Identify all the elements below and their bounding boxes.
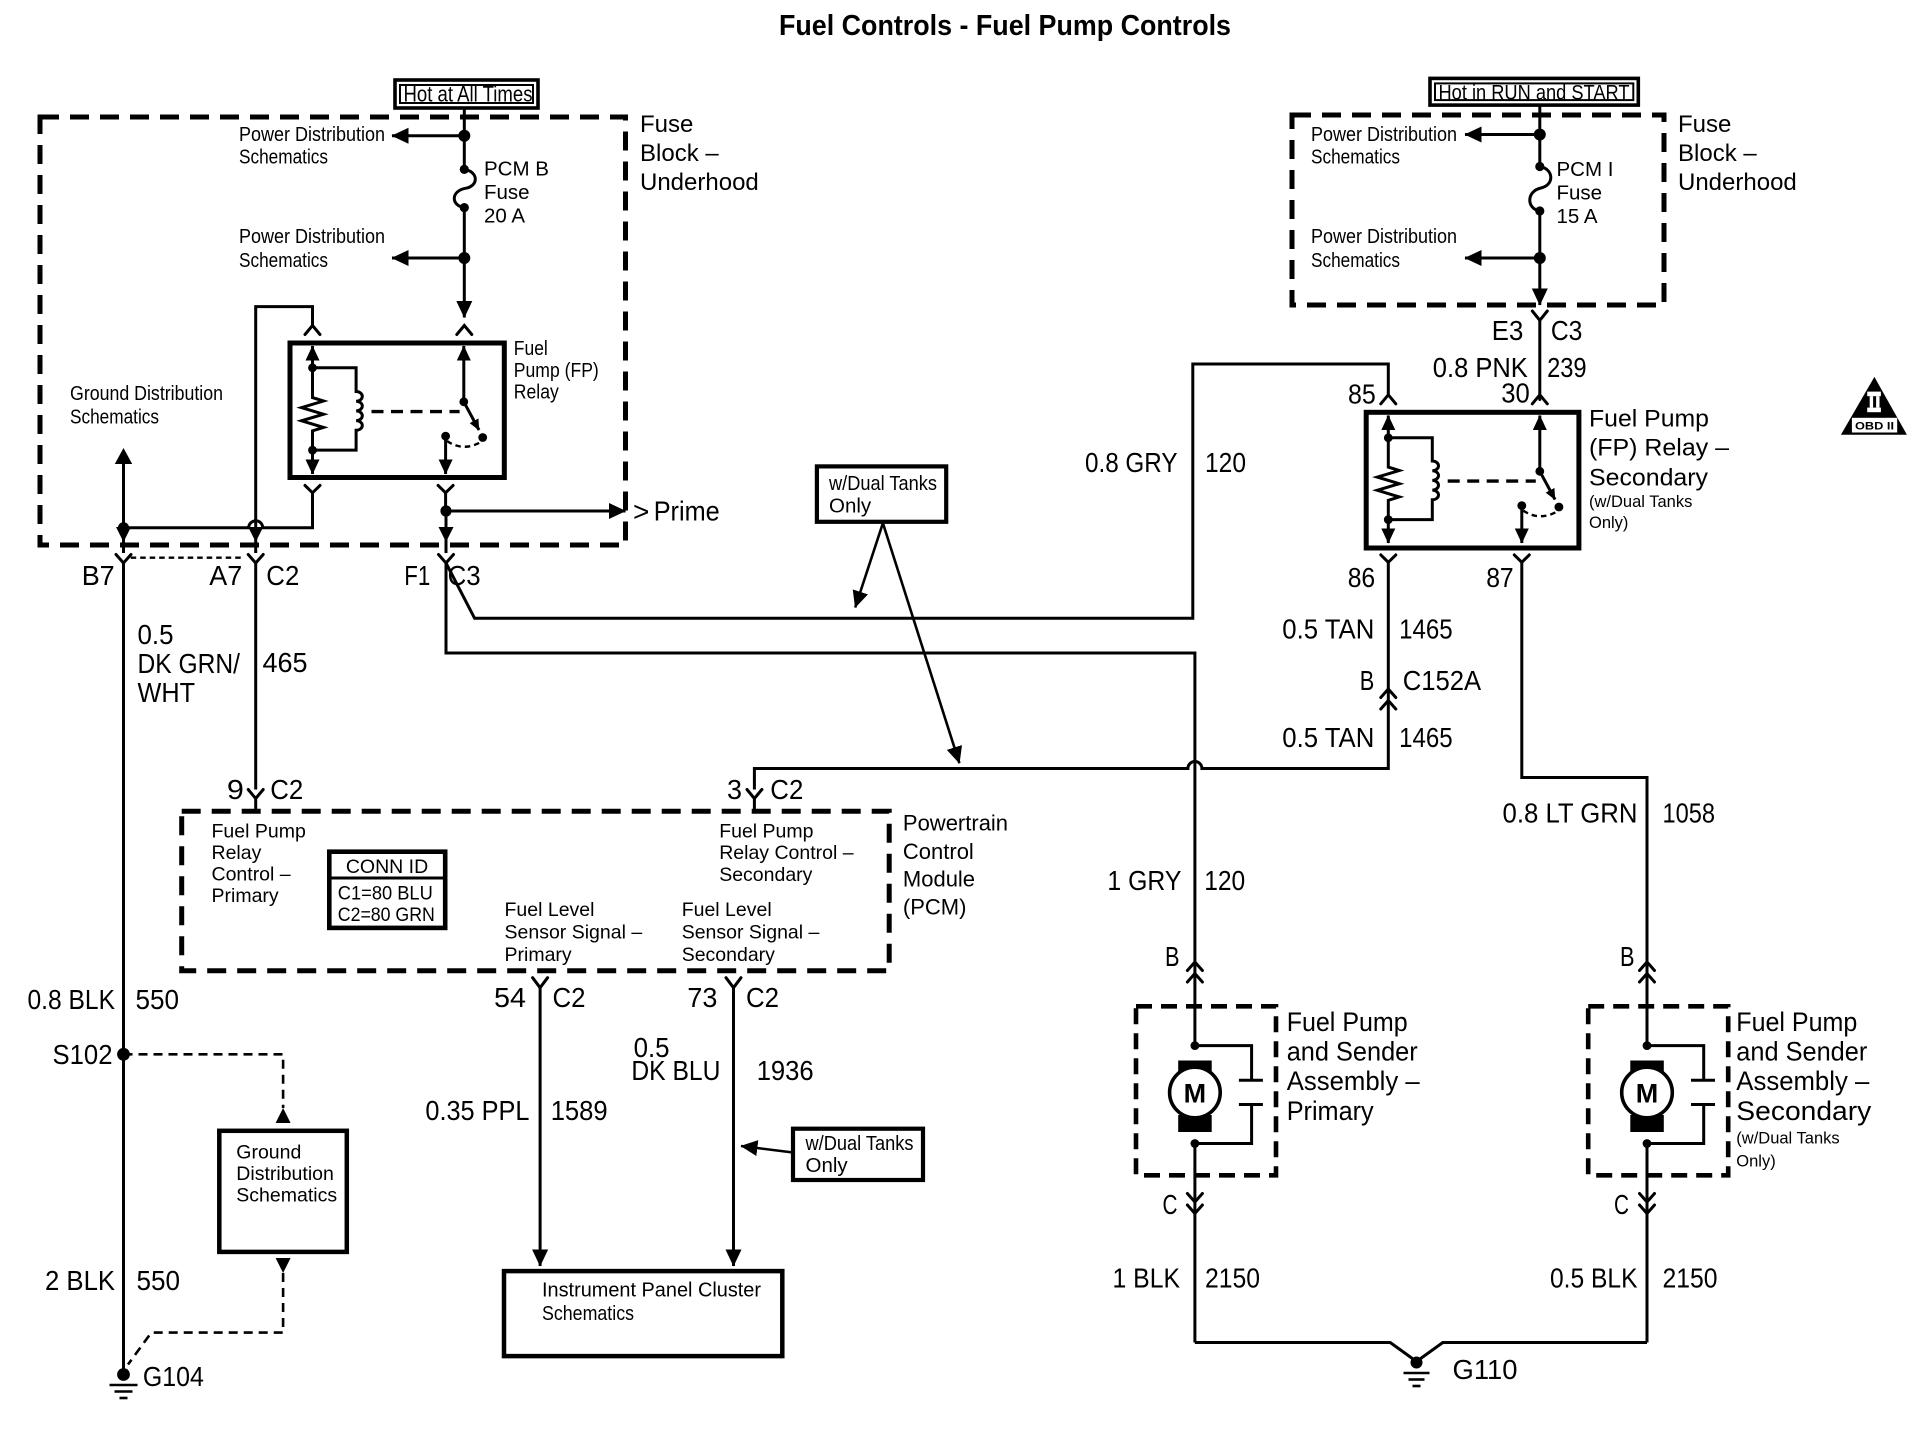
svg-text:Fuel: Fuel	[514, 337, 548, 360]
svg-text:Fuse: Fuse	[1678, 111, 1731, 138]
ground bus to G110	[1195, 1343, 1647, 1362]
wire: branch to Power Distribution Schematics (lower right)	[1465, 257, 1540, 260]
svg-text:Hot at All Times: Hot at All Times	[404, 82, 533, 107]
svg-text:Underhood: Underhood	[640, 169, 759, 196]
relay box: Fuel Pump (FP) Relay	[290, 343, 504, 478]
svg-text:Hot in RUN and START: Hot in RUN and START	[1439, 82, 1630, 105]
switch blade with arrow secondary	[1540, 471, 1555, 499]
svg-text:0.5 BLK: 0.5 BLK	[1550, 1263, 1638, 1294]
svg-text:Fuse: Fuse	[1557, 182, 1603, 205]
svg-text:Ground Distribution: Ground Distribution	[70, 382, 223, 405]
svg-text:Relay Control –: Relay Control –	[719, 842, 854, 864]
wire: B7 main ground drop	[122, 563, 125, 1375]
relay coil pin stub (arrow down out of box)	[311, 450, 314, 474]
switch blade with arrow	[464, 402, 479, 430]
svg-text:Power Distribution: Power Distribution	[239, 123, 385, 146]
connector box: Hot in RUN and START	[1430, 78, 1638, 105]
svg-text:C152A: C152A	[1403, 665, 1482, 696]
resistor (secondary relay)	[1377, 438, 1399, 520]
svg-text:C2: C2	[266, 560, 299, 591]
svg-text:Control –: Control –	[212, 864, 291, 886]
callout box: w/Dual Tanks Only (upper)	[817, 466, 946, 521]
node: prime tee	[440, 505, 451, 516]
connector chevrons: primary pump pin C	[1187, 1194, 1202, 1214]
svg-text:Module: Module	[903, 867, 975, 892]
node: switch contact (alternate)	[478, 433, 487, 442]
svg-text:Sensor Signal –: Sensor Signal –	[505, 922, 643, 944]
svg-text:0.5 TAN: 0.5 TAN	[1282, 722, 1374, 753]
connector chevrons: B / C152A	[1381, 689, 1396, 709]
svg-text:Secondary: Secondary	[1736, 1096, 1872, 1126]
svg-text:Schematics: Schematics	[542, 1302, 634, 1325]
node: pump motor top	[1191, 1041, 1200, 1050]
pin chevron: pin 87 exit	[1514, 555, 1529, 562]
ground G110	[1404, 1357, 1430, 1387]
svg-text:Assembly –: Assembly –	[1736, 1066, 1869, 1096]
svg-text:Schematics: Schematics	[239, 146, 328, 169]
pin chevron: secondary relay pin 30 entry	[1532, 395, 1547, 404]
wire: switch output F1 drop with Prime tee	[444, 493, 447, 511]
svg-text:Fuel Pump: Fuel Pump	[1736, 1007, 1857, 1037]
node: B7 wire junction	[118, 522, 129, 533]
svg-text:Secondary: Secondary	[719, 864, 812, 886]
wire: fused ignition to border (arrow)	[1538, 258, 1541, 305]
svg-text:and Sender: and Sender	[1736, 1037, 1867, 1067]
arrow: w/Dual Tanks callout to secondary signal wire	[741, 1146, 793, 1153]
svg-text:(w/Dual Tanks: (w/Dual Tanks	[1736, 1130, 1839, 1148]
svg-text:87: 87	[1486, 562, 1514, 593]
node: coil bottom secondary	[1384, 515, 1393, 524]
svg-text:465: 465	[263, 647, 308, 678]
svg-text:G104: G104	[143, 1361, 204, 1392]
wire: pin 86 to PCM pin 3 (hop over GRY)	[754, 562, 1388, 789]
svg-text:C1=80 BLU: C1=80 BLU	[338, 883, 433, 905]
junction node (lower tap, right)	[1534, 252, 1546, 264]
arrow: callout to TAN wire	[883, 523, 960, 763]
svg-text:Fuel Pump: Fuel Pump	[1589, 406, 1709, 433]
svg-text:2150: 2150	[1205, 1263, 1260, 1294]
svg-text:54: 54	[494, 982, 526, 1013]
svg-text:Powertrain: Powertrain	[903, 811, 1008, 836]
wire: F1 diagonal branch to secondary relay pin 85	[446, 364, 1388, 618]
svg-text:1 BLK: 1 BLK	[1113, 1263, 1181, 1294]
dashed branch: box to G104	[128, 1273, 283, 1365]
node: S102 splice	[117, 1048, 130, 1061]
node: switch common secondary	[1535, 467, 1544, 476]
connector dashed link line B7-A7	[131, 557, 243, 559]
fuel level sender (secondary)	[1647, 1046, 1715, 1144]
dashed branch: S102 to ground distribution box	[124, 1054, 284, 1108]
connector box: Hot at All Times	[395, 80, 538, 108]
svg-text:Only: Only	[829, 495, 872, 518]
svg-text:OBD II: OBD II	[1855, 420, 1894, 432]
triangle out of ground distribution box	[276, 1258, 291, 1273]
pin chevron: relay top right entry	[457, 326, 472, 335]
triangle into ground distribution box	[276, 1108, 291, 1123]
svg-text:C: C	[1614, 1189, 1629, 1220]
pin chevron: PCM pin 73	[726, 978, 741, 988]
relay output pin 87 stub (arrow down out of box)	[1520, 506, 1523, 543]
svg-text:1058: 1058	[1663, 798, 1716, 829]
relay coil pin stub (arrow down out of box) secondary	[1387, 520, 1390, 543]
wire: fuse output down to lower tap	[463, 208, 466, 258]
node: coil top secondary	[1384, 433, 1393, 442]
wire: fuel level signal secondary to cluster	[732, 988, 735, 1266]
fuse block underhood (left) dashed box	[40, 117, 626, 545]
svg-text:w/Dual Tanks: w/Dual Tanks	[828, 472, 937, 495]
svg-text:550: 550	[137, 1265, 181, 1296]
svg-text:Only: Only	[806, 1154, 849, 1177]
pin chevron: secondary relay pin 85 entry	[1381, 395, 1396, 404]
svg-text:WHT: WHT	[138, 677, 196, 708]
node: pump motor bottom	[1191, 1139, 1200, 1148]
wire: prime feed arrow	[446, 510, 626, 513]
triangle: from Ground Distribution Schematics	[115, 448, 132, 464]
svg-text:15 A: 15 A	[1557, 205, 1598, 228]
svg-text:550: 550	[136, 984, 180, 1015]
svg-text:M: M	[1636, 1079, 1659, 1109]
svg-text:Schematics: Schematics	[1311, 249, 1400, 272]
svg-text:Schematics: Schematics	[239, 249, 328, 272]
svg-text:(PCM): (PCM)	[903, 895, 967, 920]
svg-text:1465: 1465	[1399, 614, 1453, 645]
svg-text:Instrument Panel Cluster: Instrument Panel Cluster	[542, 1279, 761, 1302]
svg-text:Ground: Ground	[236, 1142, 301, 1164]
wire: branch to Power Distribution Schematics (upper)	[392, 134, 464, 137]
dashed link: coil to switch secondary	[1448, 479, 1536, 482]
wire: battery feed from Hot at All Times into fuse block	[463, 108, 466, 169]
OBD II symbol	[1841, 377, 1907, 435]
svg-text:Block –: Block –	[640, 140, 719, 167]
svg-text:Schematics: Schematics	[1311, 146, 1400, 169]
svg-text:Pump (FP): Pump (FP)	[514, 359, 599, 382]
svg-text:Primary: Primary	[505, 944, 572, 966]
ground G104	[110, 1368, 138, 1398]
svg-text:C: C	[1163, 1189, 1178, 1220]
svg-text:2 BLK: 2 BLK	[45, 1265, 115, 1296]
svg-text:120: 120	[1204, 865, 1245, 896]
node: pump motor top (secondary)	[1643, 1041, 1652, 1050]
svg-text:(FP) Relay –: (FP) Relay –	[1589, 435, 1730, 462]
svg-text:Only): Only)	[1589, 514, 1628, 532]
svg-text:(w/Dual Tanks: (w/Dual Tanks	[1589, 493, 1692, 511]
pin chevron: E3/C3 connector	[1532, 311, 1547, 400]
connector chevrons: primary pump pin B	[1187, 962, 1202, 982]
svg-text:B: B	[1620, 941, 1635, 972]
svg-text:Primary: Primary	[212, 885, 279, 907]
svg-text:239: 239	[1547, 352, 1587, 383]
pin chevron: relay coil top entry	[305, 326, 320, 335]
svg-text:S102: S102	[53, 1039, 113, 1070]
svg-text:Relay: Relay	[212, 842, 262, 864]
svg-text:0.5 TAN: 0.5 TAN	[1282, 614, 1374, 645]
wire: F1 crossing dashed border (arrow)	[439, 527, 454, 542]
svg-text:Control: Control	[903, 839, 974, 864]
svg-text:1936: 1936	[757, 1055, 814, 1086]
svg-text:Underhood: Underhood	[1678, 169, 1797, 196]
svg-text:C2: C2	[746, 982, 779, 1013]
svg-text:M: M	[1184, 1079, 1207, 1109]
svg-text:Power Distribution: Power Distribution	[1311, 123, 1457, 146]
wire: A7 drop crossing dashed border (arrow)	[248, 527, 263, 542]
svg-text:9: 9	[227, 774, 244, 805]
dashed throw arc (secondary switch)	[1523, 511, 1557, 517]
pin chevron: F1	[439, 555, 454, 564]
svg-text:120: 120	[1205, 447, 1246, 478]
dashed link: coil to switch	[372, 410, 460, 413]
wire: relay coil ground to B7 line (hop over A7 wire)	[124, 493, 313, 528]
svg-text:PCM B: PCM B	[484, 158, 549, 181]
fuse block underhood (right) dashed box	[1292, 115, 1664, 305]
svg-text:30: 30	[1501, 378, 1530, 409]
svg-text:DK GRN/: DK GRN/	[138, 648, 241, 679]
svg-text:1465: 1465	[1399, 722, 1453, 753]
svg-text:2150: 2150	[1663, 1263, 1718, 1294]
svg-text:Power Distribution: Power Distribution	[239, 225, 385, 248]
dashed box: fuel pump and sender assembly primary	[1136, 1006, 1276, 1175]
svg-text:Secondary: Secondary	[1589, 464, 1708, 491]
PCM dashed box	[182, 811, 890, 971]
node: pump motor bottom (secondary)	[1643, 1139, 1652, 1148]
coil winding (relay)	[313, 368, 363, 450]
dashed box: fuel pump and sender assembly secondary	[1588, 1006, 1728, 1175]
svg-text:Fuel Level: Fuel Level	[682, 899, 772, 921]
junction node (lower feed tap)	[458, 252, 470, 264]
svg-text:w/Dual Tanks: w/Dual Tanks	[805, 1132, 914, 1155]
svg-text:0.5: 0.5	[138, 619, 174, 650]
box: Instrument Panel Cluster Schematics	[504, 1271, 782, 1356]
svg-text:>: >	[633, 496, 649, 527]
svg-text:C3: C3	[1551, 315, 1583, 346]
node: switch common	[459, 397, 468, 406]
svg-text:20 A: 20 A	[484, 205, 525, 228]
svg-text:Fuel Pump: Fuel Pump	[719, 821, 813, 843]
fuse PCM I 15 A	[1530, 162, 1551, 216]
svg-text:A7: A7	[209, 560, 242, 591]
svg-text:1589: 1589	[551, 1095, 608, 1126]
callout box: w/Dual Tanks Only (lower)	[793, 1129, 923, 1180]
node: coil bottom	[308, 446, 317, 455]
node: switch contact (output) secondary	[1517, 501, 1526, 510]
svg-text:F1: F1	[404, 560, 430, 591]
svg-text:Primary: Primary	[1287, 1096, 1374, 1126]
wire: F1 drop to primary pump feed	[446, 563, 1195, 1046]
svg-text:B: B	[1360, 665, 1375, 696]
relay box: Fuel Pump (FP) Relay - Secondary	[1366, 412, 1579, 548]
relay output pin stub (arrow down out of box)	[444, 436, 447, 474]
node: coil top	[308, 363, 317, 372]
wire: B7 drop from triangle through junction to border	[122, 464, 125, 525]
wire: pin 87 to secondary pump feed	[1522, 562, 1647, 1045]
wire: fused feed to FP relay pin 30 (switch common)	[463, 258, 466, 318]
wire: branch to Power Distribution Schematics (upper right)	[1465, 133, 1540, 136]
connector chevrons: secondary pump pin C	[1640, 1194, 1655, 1214]
svg-text:1 GRY: 1 GRY	[1107, 865, 1181, 896]
svg-text:Fuel Level: Fuel Level	[505, 899, 595, 921]
relay switch pin stub (arrow up into box)	[462, 346, 465, 402]
svg-text:85: 85	[1348, 379, 1376, 410]
svg-text:Relay: Relay	[514, 381, 560, 404]
svg-text:CONN ID: CONN ID	[346, 856, 428, 878]
svg-text:Fuel Pump: Fuel Pump	[212, 821, 306, 843]
svg-text:Schematics: Schematics	[236, 1185, 337, 1207]
junction node (upper feed tap)	[458, 130, 470, 142]
motor M (secondary pump)	[1622, 1061, 1673, 1133]
svg-text:B: B	[1165, 941, 1180, 972]
svg-text:C2: C2	[553, 982, 586, 1013]
svg-text:Fuel Pump: Fuel Pump	[1287, 1007, 1408, 1037]
svg-text:3: 3	[727, 774, 742, 805]
svg-text:Assembly –: Assembly –	[1287, 1066, 1420, 1096]
svg-text:Sensor Signal –: Sensor Signal –	[682, 922, 820, 944]
svg-text:0.8 LT GRN: 0.8 LT GRN	[1503, 798, 1638, 829]
coil winding (secondary relay)	[1388, 438, 1438, 520]
box: Ground Distribution Schematics	[219, 1131, 346, 1252]
wire: ignition feed from Hot in RUN box	[1538, 105, 1541, 166]
connector chevrons: secondary pump pin B	[1640, 962, 1655, 982]
relay switch pin stub (arrow up into box) secondary	[1538, 416, 1541, 472]
pin chevron: relay coil bottom exit	[305, 485, 320, 492]
svg-text:0.8 BLK: 0.8 BLK	[28, 984, 116, 1015]
svg-text:Only): Only)	[1736, 1153, 1775, 1171]
pin chevron: B7	[116, 555, 131, 564]
pin chevron: PCM pin 3	[747, 790, 762, 812]
svg-text:0.8 GRY: 0.8 GRY	[1085, 447, 1178, 478]
motor M (primary pump)	[1170, 1061, 1221, 1133]
svg-text:86: 86	[1348, 562, 1376, 593]
resistor (relay)	[302, 368, 324, 450]
wire: primary pump ground drop	[1193, 1144, 1196, 1343]
svg-text:Power Distribution: Power Distribution	[1311, 225, 1457, 248]
wire: secondary pump ground drop	[1646, 1144, 1649, 1343]
relay coil pin stub (arrow up into box)	[311, 346, 314, 368]
wire: relay coil control loop to A7 (up and over)	[256, 307, 313, 525]
pin chevron: PCM pin 54	[533, 978, 548, 988]
arrow: callout to GRY wire	[855, 523, 883, 607]
svg-text:PCM I: PCM I	[1557, 158, 1614, 181]
svg-text:0.35 PPL: 0.35 PPL	[425, 1095, 529, 1126]
pin chevron: relay output bottom exit	[438, 485, 453, 492]
wire: fuel level signal primary to cluster	[539, 988, 542, 1266]
pin chevron: pin 86 exit	[1381, 555, 1396, 562]
svg-text:C2=80 GRN: C2=80 GRN	[338, 904, 435, 926]
dashed throw arc (switch)	[447, 441, 481, 447]
svg-text:C2: C2	[770, 774, 803, 805]
wire: branch to Power Distribution Schematics (lower)	[392, 257, 464, 260]
pin chevron: A7	[248, 555, 263, 564]
svg-text:DK BLU: DK BLU	[631, 1055, 720, 1086]
svg-text:Prime: Prime	[654, 496, 720, 527]
pin chevron: PCM pin 9	[248, 790, 263, 812]
svg-text:Secondary: Secondary	[682, 944, 775, 966]
svg-text:Schematics: Schematics	[70, 406, 159, 429]
svg-text:73: 73	[687, 982, 717, 1013]
svg-text:E3: E3	[1492, 315, 1524, 346]
wire: A7 to PCM pin 9	[254, 563, 257, 790]
node: switch contact (alternate) secondary	[1555, 503, 1564, 512]
svg-text:Fuse: Fuse	[640, 111, 693, 138]
wire: fuse output to lower tap (right)	[1538, 211, 1541, 258]
svg-text:G110: G110	[1453, 1354, 1518, 1385]
node: switch contact (output)	[441, 432, 450, 441]
svg-text:and Sender: and Sender	[1287, 1037, 1418, 1067]
svg-text:C2: C2	[270, 774, 303, 805]
CONN ID table	[329, 852, 445, 928]
svg-text:B7: B7	[82, 560, 115, 591]
svg-text:Block –: Block –	[1678, 140, 1757, 167]
relay coil pin stub (arrow up into box) secondary	[1387, 416, 1390, 438]
junction node (upper tap, right)	[1534, 129, 1546, 141]
svg-text:Fuel Controls - Fuel Pump Cont: Fuel Controls - Fuel Pump Controls	[779, 10, 1231, 42]
svg-text:Distribution: Distribution	[236, 1163, 334, 1185]
svg-text:Fuse: Fuse	[484, 181, 530, 204]
fuel level sender (primary)	[1195, 1046, 1263, 1144]
fuse PCM B 20 A	[454, 165, 475, 212]
